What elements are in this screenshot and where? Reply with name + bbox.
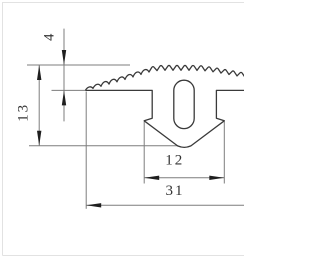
arrow 4 bottom (points up to y=90.4) [62, 90, 66, 105]
svg-text:31: 31 [166, 183, 185, 199]
image frame border [3, 3, 245, 256]
arrow 12 right [209, 176, 224, 180]
svg-text:13: 13 [16, 103, 32, 122]
arrow 4 top (points down to y=65) [62, 50, 66, 65]
dimension line 4 (vertical x=64) [63, 29, 65, 122]
extension line: left tip vertical (x=86.2) [85, 92, 87, 209]
svg-text:4: 4 [42, 33, 58, 41]
extension line: bottom vertex level (y=145.8) [29, 145, 178, 147]
arrow 12 left [144, 176, 159, 180]
arrow 13 top [37, 65, 41, 80]
profile body outline (cap underside, stem, barbed arrow point) [85, 90, 244, 147]
dimension line 13 (vertical x=39.2) [38, 65, 40, 146]
arrow 13 bottom [37, 131, 41, 146]
profile wavy ribbed top surface [85, 65, 245, 90]
svg-text:12: 12 [165, 153, 184, 169]
extension line: left barb tip vertical (x=144.2) [143, 122, 145, 184]
extension line: right barb tip vertical (x=224.3) [223, 122, 225, 184]
dimension line 12 (horizontal y=177.8) [144, 177, 224, 179]
obround slot hole in stem [174, 80, 194, 128]
extension line: left tip underside level (y=90.4) [52, 89, 86, 91]
arrow 31 left [86, 203, 101, 207]
dimension line 31 (horizontal y=205.3, clipped at right) [86, 204, 244, 206]
extension line: top of profile (y=65) [27, 64, 130, 66]
